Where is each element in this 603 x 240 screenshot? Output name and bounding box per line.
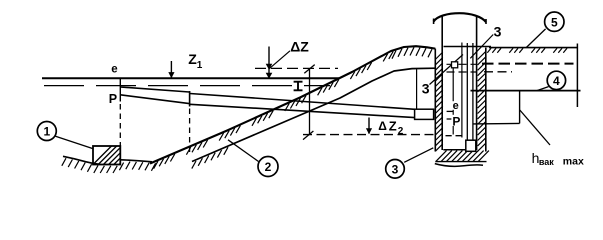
svg-text:2: 2 [398,126,404,137]
svg-text:e: e [453,100,459,112]
svg-text:e: e [111,64,117,76]
svg-text:3: 3 [422,81,430,97]
svg-text:1: 1 [197,60,203,71]
svg-text:2: 2 [265,160,272,174]
svg-text:5: 5 [551,15,558,29]
svg-text:4: 4 [553,74,560,88]
svg-text:вак: вак [539,157,554,167]
svg-text:Δ: Δ [378,119,387,133]
svg-text:1: 1 [43,125,50,139]
svg-text:3: 3 [494,24,502,40]
svg-text:max: max [563,156,584,168]
svg-text:ΔZ: ΔZ [290,38,309,54]
svg-text:P: P [452,114,460,128]
svg-text:3: 3 [392,162,399,176]
svg-text:P: P [109,92,117,106]
svg-text:Z: Z [389,118,397,133]
